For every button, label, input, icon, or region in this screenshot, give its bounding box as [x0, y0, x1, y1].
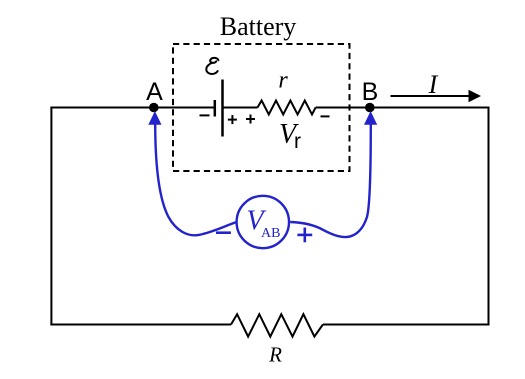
svg-text:R: R	[268, 343, 282, 367]
svg-text:r: r	[294, 130, 301, 153]
voltmeter lead wire from node B (blue, curved)	[290, 124, 371, 238]
wire bottom-left segment	[50, 324, 231, 326]
svg-text:Battery: Battery	[220, 12, 297, 41]
EMF script-E label	[206, 58, 218, 74]
minus sign left of battery	[200, 114, 210, 116]
wire right side of loop	[488, 107, 490, 326]
svg-text:A: A	[146, 78, 163, 106]
svg-text:AB: AB	[261, 226, 280, 241]
svg-text:r: r	[278, 68, 288, 94]
resistor r zigzag	[258, 101, 316, 115]
wire left side of loop	[50, 107, 52, 326]
dashed battery box	[173, 44, 350, 171]
wire resistor r to right edge through node B	[316, 107, 490, 109]
voltmeter circle VAB	[237, 196, 289, 248]
voltmeter lead wire from node A (blue, curved)	[155, 123, 236, 235]
node B dot	[365, 103, 375, 113]
plus sign right of battery plate	[228, 115, 237, 124]
current arrow I head	[469, 90, 482, 103]
plus sign at voltmeter right (blue)	[297, 228, 312, 243]
wire battery plus plate to resistor r	[223, 107, 258, 109]
battery cell positive plate	[221, 80, 224, 137]
current arrow I line	[391, 95, 471, 97]
voltmeter lead arrowhead at A (blue)	[148, 111, 161, 125]
node A dot	[149, 103, 159, 113]
wire bottom-right segment	[323, 324, 490, 326]
plus sign at left of resistor r	[246, 115, 255, 124]
minus sign at voltmeter left (blue)	[216, 231, 231, 234]
minus sign right of resistor r	[321, 115, 330, 117]
battery cell negative plate	[214, 100, 217, 117]
voltmeter lead arrowhead at B (blue)	[364, 111, 377, 125]
wire top-left segment (node A to battery minus plate)	[50, 107, 214, 109]
svg-text:B: B	[362, 78, 379, 106]
resistor R zigzag	[231, 314, 323, 336]
svg-text:I: I	[428, 70, 439, 99]
